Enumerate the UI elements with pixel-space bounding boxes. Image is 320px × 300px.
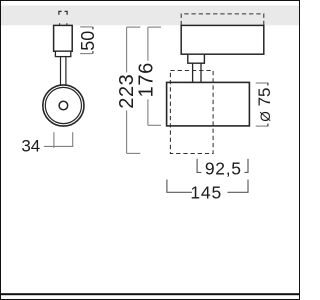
adapter box side view xyxy=(181,25,264,54)
dim diameter 75 ticks xyxy=(256,83,269,126)
dim 145 brackets xyxy=(167,180,248,193)
bottom rule xyxy=(0,293,300,295)
dim 223 line xyxy=(127,27,141,153)
spot outer circle xyxy=(43,85,84,126)
dim 176 line xyxy=(148,27,161,125)
track clip marks (front view) xyxy=(59,11,67,14)
adapter box front view xyxy=(54,25,73,51)
spot center circle xyxy=(59,101,68,110)
adapter contact ticks (front view) xyxy=(60,23,67,25)
ceiling band xyxy=(0,6,300,26)
adapter step front view xyxy=(55,51,70,56)
stem front view xyxy=(61,57,66,87)
dim 34 lines xyxy=(44,132,73,148)
svg-text:50: 50 xyxy=(78,31,98,51)
dim diameter 75 end stubs xyxy=(267,83,269,126)
svg-text:Ø 75: Ø 75 xyxy=(255,87,274,121)
neck side view xyxy=(188,54,205,63)
svg-text:92,5: 92,5 xyxy=(205,159,242,179)
svg-text:145: 145 xyxy=(190,183,222,203)
dim 50 end stubs xyxy=(92,27,94,54)
cylinder body side view xyxy=(167,82,250,126)
dim 50 ticks xyxy=(80,27,92,54)
dim 92,5 brackets xyxy=(197,159,248,173)
stem side view xyxy=(193,63,201,82)
svg-text:176: 176 xyxy=(135,62,157,97)
spot inner ring xyxy=(45,87,81,123)
track dashed outline (side view) xyxy=(181,14,264,25)
svg-text:34: 34 xyxy=(21,137,40,156)
rotated position ghost (dashed) xyxy=(170,71,213,154)
